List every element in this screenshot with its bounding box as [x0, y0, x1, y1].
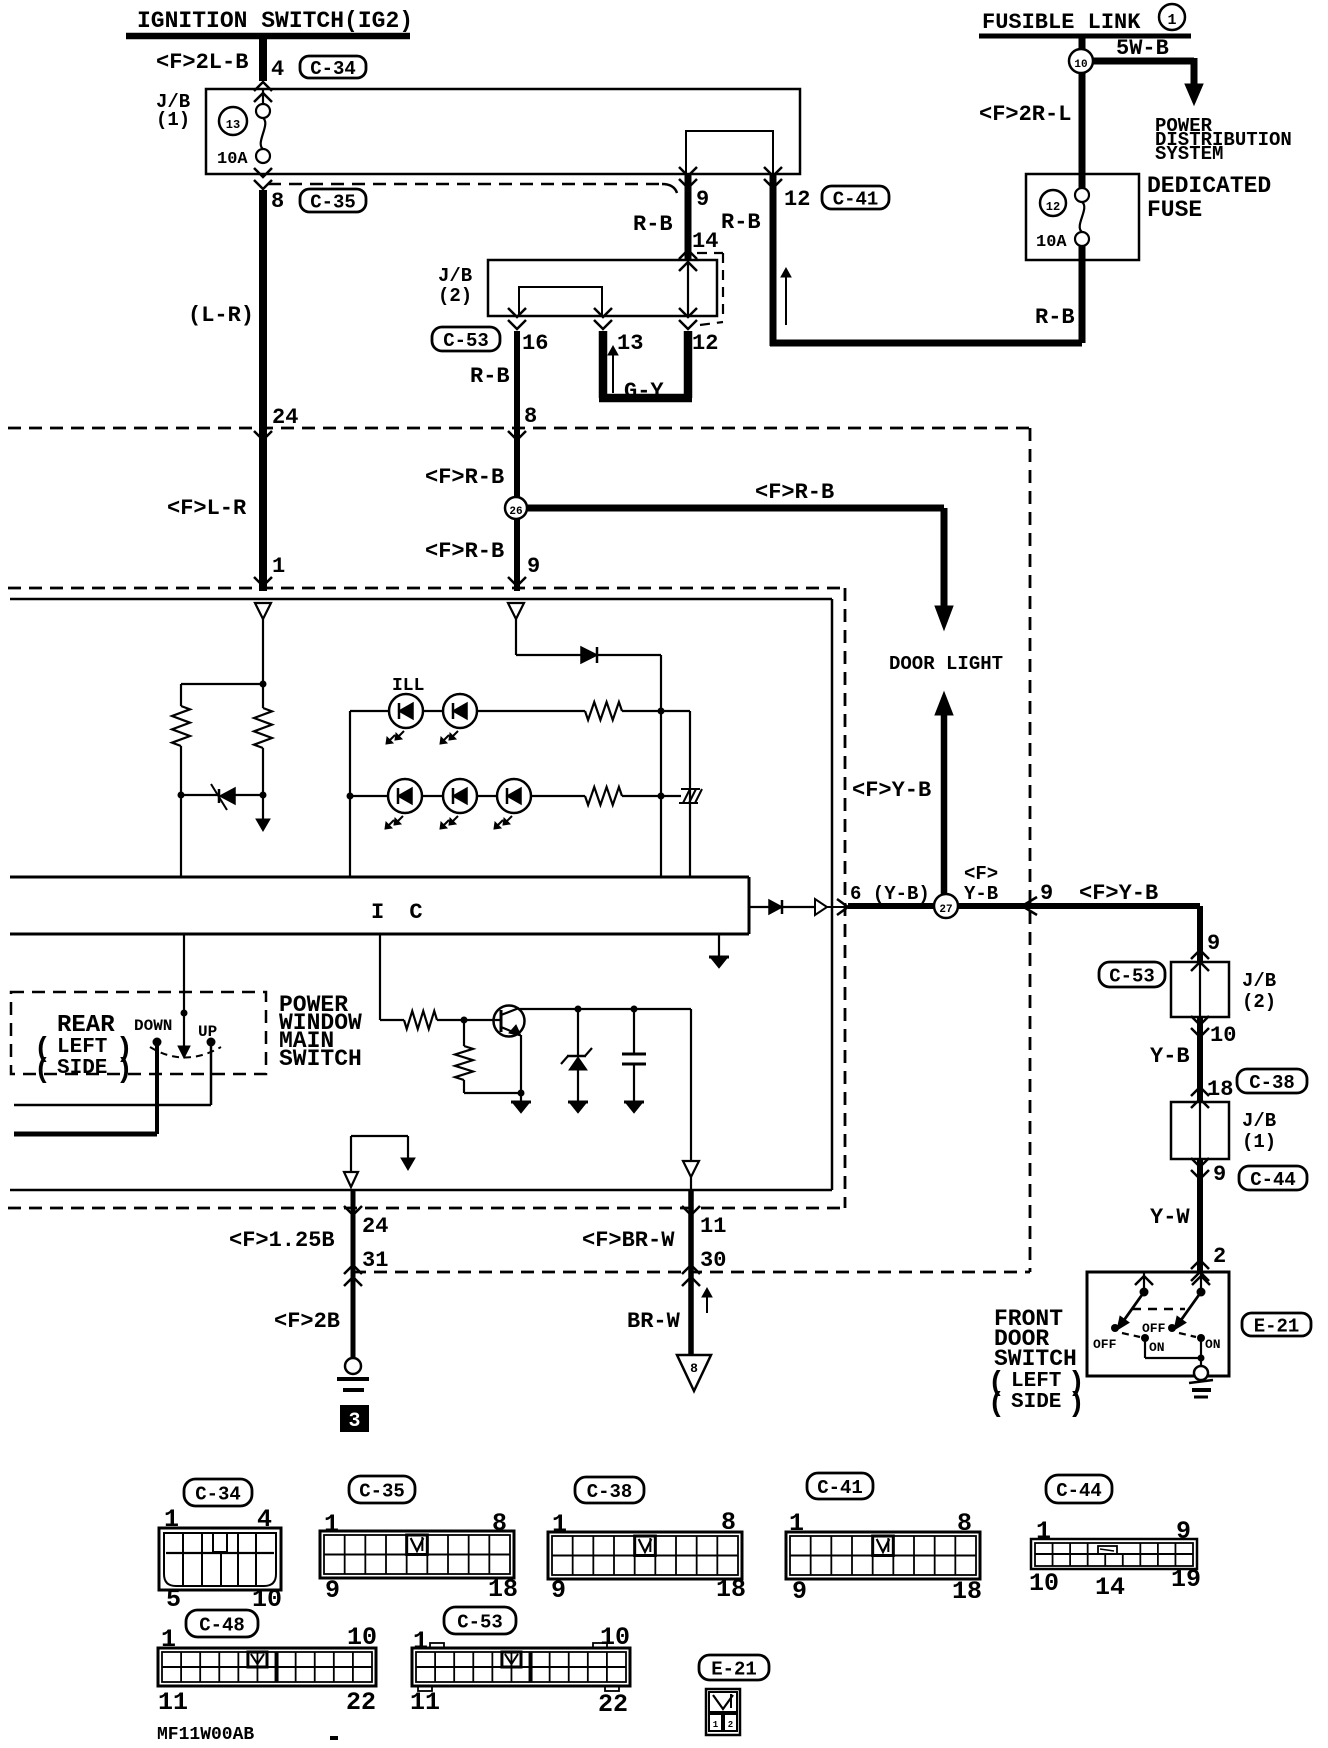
svg-text:1: 1: [272, 554, 285, 579]
svg-text:(1): (1): [156, 109, 190, 131]
svg-text:<F>2L-B: <F>2L-B: [156, 50, 248, 75]
svg-text:8: 8: [271, 189, 284, 214]
svg-text:DOWN: DOWN: [134, 1017, 172, 1035]
svg-text:9: 9: [1207, 931, 1220, 956]
svg-text:1: 1: [161, 1625, 176, 1654]
svg-text:C-53: C-53: [443, 330, 489, 352]
svg-text:R-B: R-B: [470, 364, 510, 389]
svg-text:(2): (2): [1242, 991, 1276, 1013]
svg-text:SWITCH: SWITCH: [994, 1346, 1077, 1372]
svg-text:SYSTEM: SYSTEM: [1155, 143, 1223, 165]
svg-text:18: 18: [1207, 1077, 1233, 1102]
svg-text:12: 12: [1046, 200, 1060, 214]
svg-text:I C: I C: [371, 900, 429, 925]
svg-text:(: (: [34, 1055, 51, 1086]
svg-text:9: 9: [1213, 1162, 1226, 1187]
svg-text:BR-W: BR-W: [627, 1309, 681, 1334]
svg-text:11: 11: [700, 1214, 726, 1239]
svg-text:J/B: J/B: [1242, 970, 1276, 992]
svg-text:9: 9: [527, 554, 540, 579]
svg-text:2: 2: [1213, 1244, 1226, 1269]
svg-text:<F>2B: <F>2B: [274, 1309, 340, 1334]
svg-text:C-53: C-53: [457, 1611, 503, 1633]
svg-text:<F>Y-B: <F>Y-B: [852, 778, 931, 803]
svg-text:24: 24: [272, 405, 298, 430]
svg-text:J/B: J/B: [438, 265, 472, 287]
svg-text:Y-B: Y-B: [964, 883, 998, 905]
svg-text:ON: ON: [1205, 1337, 1221, 1352]
svg-text:26: 26: [509, 506, 522, 518]
svg-text:27: 27: [939, 904, 952, 916]
svg-text:Y-W: Y-W: [1150, 1205, 1190, 1230]
svg-text:C-41: C-41: [833, 188, 879, 210]
svg-text:18: 18: [952, 1577, 982, 1606]
svg-text:8: 8: [492, 1509, 507, 1538]
svg-text:3: 3: [348, 1410, 360, 1433]
svg-text:10: 10: [1074, 59, 1087, 71]
svg-text:(2): (2): [438, 285, 472, 307]
svg-text:<F>L-R: <F>L-R: [167, 496, 247, 521]
svg-text:5: 5: [166, 1585, 181, 1614]
svg-text:J/B: J/B: [1242, 1110, 1276, 1132]
svg-text:ON: ON: [1149, 1340, 1165, 1355]
svg-text:4: 4: [257, 1505, 272, 1534]
svg-text:<F>1.25B: <F>1.25B: [229, 1228, 335, 1253]
svg-text:IGNITION SWITCH(IG2): IGNITION SWITCH(IG2): [137, 8, 413, 34]
svg-text:C-44: C-44: [1056, 1480, 1102, 1502]
svg-text:R-B: R-B: [633, 212, 673, 237]
svg-text:9: 9: [1176, 1517, 1191, 1546]
svg-text:13: 13: [226, 118, 240, 132]
svg-text:8: 8: [690, 1361, 698, 1376]
svg-text:10A: 10A: [1036, 233, 1067, 252]
svg-text:<F>BR-W: <F>BR-W: [582, 1228, 675, 1253]
svg-text:22: 22: [346, 1688, 376, 1717]
svg-text:): ): [116, 1055, 133, 1086]
svg-text:11: 11: [158, 1688, 188, 1717]
svg-text:OFF: OFF: [1093, 1337, 1117, 1352]
svg-text:18: 18: [716, 1575, 746, 1604]
svg-text:SIDE: SIDE: [57, 1057, 107, 1080]
svg-text:14: 14: [692, 229, 718, 254]
svg-text:C-48: C-48: [199, 1614, 245, 1636]
svg-text:8: 8: [721, 1508, 736, 1537]
svg-text:10: 10: [1029, 1569, 1059, 1598]
svg-text:(: (: [988, 1389, 1005, 1420]
svg-text:C-34: C-34: [195, 1483, 241, 1505]
svg-text:UP: UP: [198, 1023, 217, 1041]
svg-text:E-21: E-21: [711, 1658, 757, 1680]
svg-text:1: 1: [1036, 1517, 1051, 1546]
svg-text:DEDICATED: DEDICATED: [1147, 173, 1271, 199]
svg-text:REAR: REAR: [57, 1012, 115, 1039]
svg-text:<F>2R-L: <F>2R-L: [979, 102, 1071, 127]
svg-text:1: 1: [713, 1720, 719, 1730]
svg-text:<F>R-B: <F>R-B: [425, 539, 504, 564]
svg-text:1: 1: [552, 1510, 567, 1539]
svg-text:C-41: C-41: [817, 1477, 863, 1499]
svg-text:6 (Y-B): 6 (Y-B): [850, 883, 930, 905]
svg-text:OFF: OFF: [1142, 1321, 1166, 1336]
svg-text:SIDE: SIDE: [1011, 1391, 1061, 1414]
svg-text:1: 1: [164, 1505, 179, 1534]
svg-text:<F>R-B: <F>R-B: [755, 480, 834, 505]
svg-text:<F>R-B: <F>R-B: [425, 465, 504, 490]
svg-text:2: 2: [728, 1720, 733, 1730]
svg-text:16: 16: [522, 331, 548, 356]
svg-text:10: 10: [252, 1585, 282, 1614]
svg-text:(1): (1): [1242, 1131, 1276, 1153]
svg-text:R-B: R-B: [721, 210, 761, 235]
svg-text:12: 12: [692, 331, 718, 356]
svg-text:10A: 10A: [217, 150, 248, 169]
svg-text:30: 30: [700, 1248, 726, 1273]
svg-text:C-35: C-35: [310, 191, 356, 213]
svg-text:C-44: C-44: [1250, 1169, 1296, 1191]
svg-text:10: 10: [347, 1623, 377, 1652]
svg-text:E-21: E-21: [1254, 1315, 1300, 1337]
svg-text:Y-B: Y-B: [1150, 1044, 1190, 1069]
svg-text:19: 19: [1171, 1565, 1201, 1594]
svg-text:1: 1: [413, 1627, 428, 1656]
svg-text:8: 8: [957, 1509, 972, 1538]
svg-text:11: 11: [410, 1688, 440, 1717]
svg-text:9: 9: [551, 1576, 566, 1605]
svg-text:(L-R): (L-R): [188, 303, 254, 328]
svg-text:DOOR LIGHT: DOOR LIGHT: [889, 653, 1003, 675]
svg-text:): ): [1068, 1389, 1085, 1420]
svg-text:10: 10: [600, 1623, 630, 1652]
svg-text:18: 18: [488, 1575, 518, 1604]
svg-text:31: 31: [362, 1248, 388, 1273]
svg-text:MF11W00AB: MF11W00AB: [157, 1725, 254, 1745]
svg-text:8: 8: [524, 404, 537, 429]
svg-text:C-35: C-35: [359, 1480, 405, 1502]
svg-text:<F>: <F>: [964, 863, 998, 885]
svg-text:14: 14: [1095, 1573, 1125, 1602]
svg-text:C-34: C-34: [310, 58, 356, 80]
svg-text:FUSIBLE LINK: FUSIBLE LINK: [982, 10, 1141, 35]
svg-text:G-Y: G-Y: [624, 379, 664, 404]
svg-text:<F>Y-B: <F>Y-B: [1079, 881, 1158, 906]
svg-text:SWITCH: SWITCH: [279, 1046, 362, 1072]
svg-text:9: 9: [325, 1576, 340, 1605]
svg-text:9: 9: [792, 1577, 807, 1606]
svg-text:C-38: C-38: [587, 1481, 633, 1503]
svg-text:1: 1: [789, 1509, 804, 1538]
svg-text:10: 10: [1210, 1023, 1236, 1048]
svg-text:9: 9: [1040, 881, 1053, 906]
svg-text:1: 1: [324, 1510, 339, 1539]
svg-text:LEFT: LEFT: [1011, 1370, 1061, 1393]
svg-text:R-B: R-B: [1035, 305, 1075, 330]
svg-text:5W-B: 5W-B: [1116, 36, 1169, 61]
svg-text:LEFT: LEFT: [57, 1036, 107, 1059]
svg-text:FUSE: FUSE: [1147, 197, 1202, 223]
svg-text:4: 4: [271, 57, 284, 82]
svg-text:C-38: C-38: [1249, 1072, 1295, 1094]
svg-text:24: 24: [362, 1214, 388, 1239]
svg-text:9: 9: [696, 187, 709, 212]
svg-text:C-53: C-53: [1109, 965, 1155, 987]
svg-text:13: 13: [617, 331, 643, 356]
svg-text:1: 1: [1167, 12, 1176, 29]
svg-text:22: 22: [598, 1690, 628, 1719]
svg-text:12: 12: [784, 187, 810, 212]
